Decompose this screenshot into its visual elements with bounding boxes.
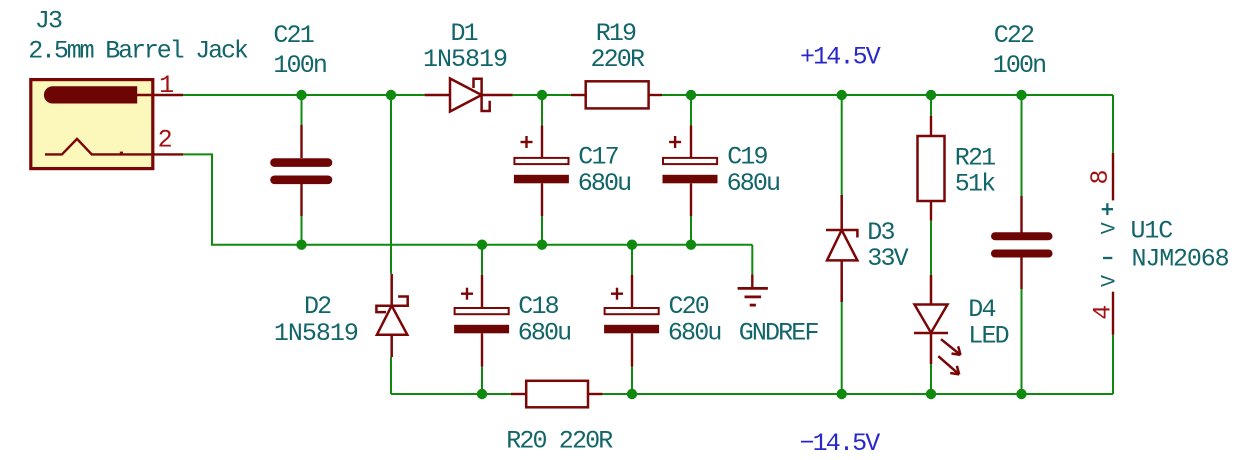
svg-text:100n: 100n (993, 51, 1046, 80)
svg-text:R21: R21 (955, 143, 995, 172)
svg-text:2.5mm Barrel Jack: 2.5mm Barrel Jack (28, 36, 248, 65)
svg-text:C17: C17 (578, 142, 618, 171)
svg-text:680u: 680u (668, 318, 721, 347)
svg-text:1: 1 (159, 71, 174, 100)
svg-text:33V: 33V (867, 244, 908, 273)
svg-text:R20 220R: R20 220R (506, 426, 613, 455)
svg-text:C20: C20 (669, 292, 709, 321)
svg-text:D3: D3 (867, 218, 894, 247)
svg-text:C18: C18 (518, 292, 558, 321)
svg-text:C21: C21 (273, 21, 313, 50)
svg-text:220R: 220R (591, 45, 645, 74)
svg-text:1N5819: 1N5819 (274, 319, 358, 348)
svg-text:100n: 100n (273, 51, 326, 80)
svg-text:D1: D1 (451, 19, 478, 48)
svg-text:+14.5V: +14.5V (800, 43, 881, 72)
svg-text:U1C: U1C (1131, 216, 1173, 245)
svg-text:GNDREF: GNDREF (739, 318, 819, 347)
svg-text:D4: D4 (968, 295, 995, 324)
svg-text:V: V (1099, 222, 1122, 234)
svg-text:8: 8 (1086, 169, 1115, 184)
svg-text:680u: 680u (578, 169, 631, 198)
svg-text:−14.5V: −14.5V (800, 429, 881, 458)
svg-text:680u: 680u (727, 169, 780, 198)
svg-text:R19: R19 (596, 19, 636, 48)
svg-text:1N5819: 1N5819 (423, 45, 507, 74)
svg-text:4: 4 (1088, 305, 1117, 320)
svg-text:D2: D2 (304, 292, 331, 321)
svg-text:NJM2068: NJM2068 (1132, 245, 1229, 274)
svg-text:LED: LED (968, 321, 1008, 350)
svg-text:J3: J3 (35, 7, 62, 36)
svg-text:C19: C19 (727, 142, 767, 171)
svg-text:51k: 51k (955, 170, 995, 199)
svg-text:2: 2 (158, 126, 173, 155)
svg-text:680u: 680u (518, 318, 571, 347)
svg-text:C22: C22 (994, 21, 1034, 50)
svg-text:V: V (1099, 275, 1122, 287)
